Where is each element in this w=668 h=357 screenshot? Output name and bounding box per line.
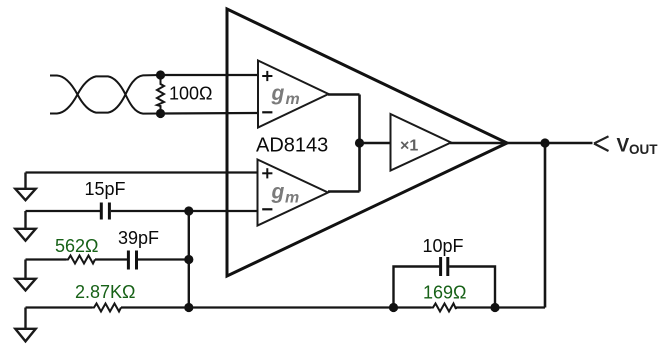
capacitor C 10pF loop [394,267,496,308]
node: gm bus junction [355,138,364,147]
svg-text:15pF: 15pF [85,179,126,199]
svg-text:AD8143: AD8143 [256,135,328,157]
node: feedback junction on - input wire [184,206,193,215]
buffer x1 triangle [391,114,452,171]
op-amp U1 AD8143 outer triangle [227,9,507,276]
op-amp gm1 (top transconductance amp) [258,61,329,128]
wire: bottom feedback segment (middle) [121,306,431,308]
wire: gm2 - input segment (left of C 15pF) [26,210,101,212]
svg-text:×1: ×1 [400,138,418,155]
terminal VOUT tick [594,136,609,151]
wire: buffer output to VOUT [450,142,593,144]
node: output junction [540,138,549,147]
wire: gm2 output [328,190,360,192]
resistor 2.87Kohm [92,304,121,312]
ground G1 [15,173,35,201]
wire: gm2 + input from ground [26,171,259,173]
svg-text:39pF: 39pF [118,228,159,248]
label gm (U1 bottom) [271,181,300,207]
svg-text:OUT: OUT [629,142,658,157]
svg-text:562Ω: 562Ω [55,236,99,256]
node: bottom feedback junction [184,303,193,312]
op-amp gm2 (bottom transconductance amp) [258,160,329,226]
node: twisted pair bottom junction [156,109,165,118]
svg-text:100Ω: 100Ω [169,84,213,104]
wire: gm2 - input segment (right of C 15pF) [111,210,258,212]
wire: top input + to gm1 [161,74,260,76]
node: 10pF loop left junction [389,303,398,312]
ground G2 [15,211,35,241]
resistor 169ohm [431,304,456,312]
wire: bottom feedback segment (right) [456,306,545,308]
wire: bus to x1 buffer input [360,142,391,144]
wire: 562/39pF branch segment (left) [26,258,67,260]
svg-text:m: m [286,91,300,108]
pin + of gm2 [262,168,272,178]
wire: output feedback drop (vertical) [544,143,547,308]
wire: C 39pF to junction [138,258,189,260]
node: 562/39pF branch junction [184,255,193,264]
resistor 562ohm [66,256,95,264]
svg-text:g: g [271,181,285,204]
label VOUT [617,136,659,158]
capacitor C 39pF [128,251,136,270]
node: 10pF loop right junction [490,303,499,312]
svg-text:10pF: 10pF [423,236,464,256]
wire: bottom input - to gm1 [161,112,260,115]
pin + of gm1 [262,71,272,81]
wire: between 562ohm and C 39pF [95,258,127,260]
node: twisted pair top junction [156,70,165,79]
capacitor C 10pF plates [441,257,448,276]
svg-text:2.87KΩ: 2.87KΩ [75,282,136,302]
svg-text:V: V [617,136,630,157]
label gm (U1 top) [271,82,300,108]
wire: bottom feedback segment (left of 2.87K) [26,306,93,308]
svg-text:m: m [285,190,299,207]
pin - of gm1 [262,111,272,113]
pin - of gm2 [262,208,272,210]
capacitor C 15pF [101,203,109,220]
wire: feedback bus vertical [188,211,190,308]
ground G4 [15,308,35,342]
twisted pair input [50,75,161,114]
svg-text:169Ω: 169Ω [423,283,467,303]
wire: gm1 output [328,93,360,95]
resistor 100ohm (vertical) [157,75,164,114]
wire: gm output bus (vertical) [358,95,361,192]
svg-text:g: g [271,82,285,105]
ground G3 [15,260,35,291]
